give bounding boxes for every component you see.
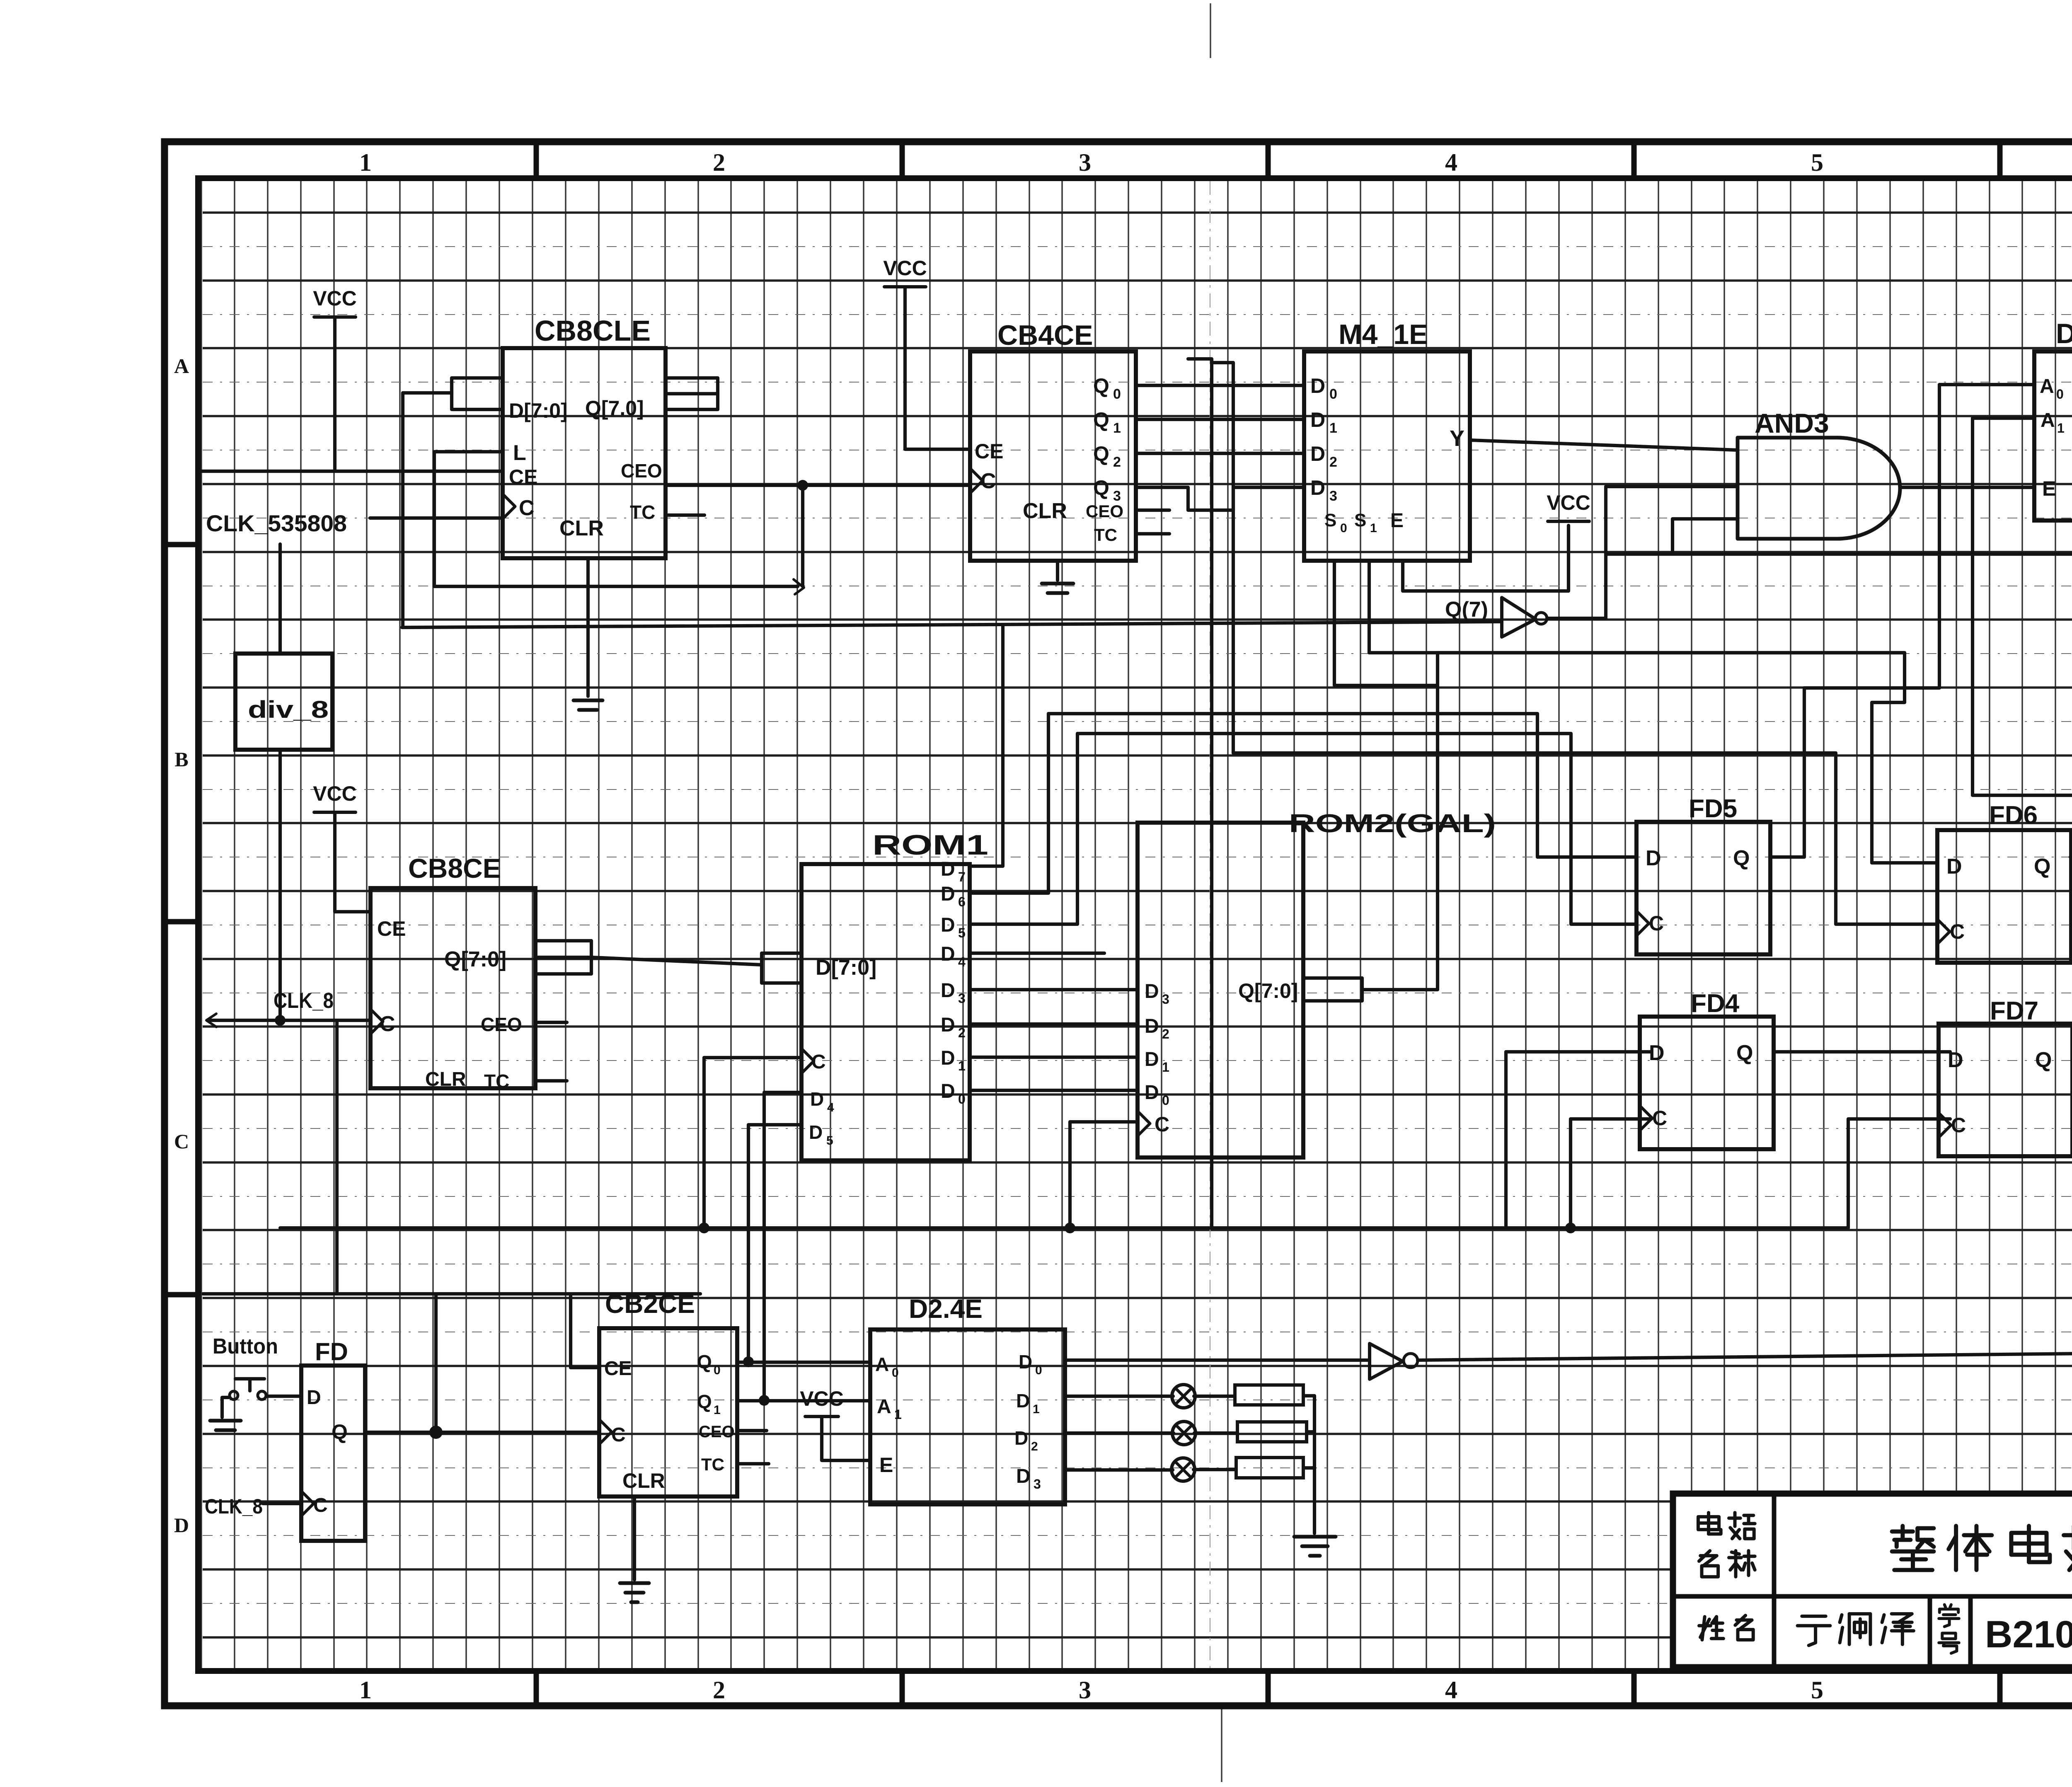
wire rail into FD6 C: [1233, 753, 1937, 924]
svg-text:C: C: [611, 1424, 626, 1446]
resistor R1: [1235, 1385, 1303, 1405]
svg-text:CB8CE: CB8CE: [408, 853, 501, 884]
svg-text:D: D: [809, 1121, 823, 1143]
stub CB2CE CEO: [737, 1429, 767, 1432]
svg-text:FD6: FD6: [1989, 801, 2038, 830]
wire CB2CE Q0 to D2.4E A0: [737, 1361, 870, 1364]
svg-text:CLR: CLR: [1023, 499, 1067, 523]
svg-text:D: D: [1946, 855, 1962, 879]
svg-text:TC: TC: [1094, 525, 1117, 545]
svg-text:CEO: CEO: [621, 460, 662, 482]
wire ROM1 D4 input riser from CB2CE Q1: [764, 1092, 801, 1400]
svg-text:Q: Q: [2035, 1048, 2052, 1072]
gate NOT (output buffer): [1370, 1344, 1403, 1379]
svg-text:C: C: [1950, 920, 1965, 943]
wire ROM1 C from clock rail: [704, 1058, 801, 1228]
svg-text:CE: CE: [604, 1358, 632, 1380]
wire junction down to L loop: [801, 485, 804, 586]
svg-text:CLR: CLR: [559, 516, 604, 540]
svg-text:D: D: [1016, 1390, 1030, 1412]
ground below button: [210, 1421, 241, 1430]
title block label 电路名称: [1707, 1513, 1710, 1534]
divider block div_8: [235, 654, 332, 750]
svg-text:D: D: [941, 1014, 955, 1036]
bus stub out of CB8CLE Q[7.0]: [666, 378, 718, 409]
svg-text:Q(7): Q(7): [1445, 598, 1488, 622]
svg-text:Q: Q: [1093, 442, 1109, 465]
svg-text:4: 4: [958, 954, 966, 969]
svg-text:D: D: [1310, 442, 1325, 465]
wire LED1 to resistor R1: [1194, 1395, 1235, 1398]
bus CB8CE Q[7:0] out: [535, 941, 591, 974]
svg-text:E: E: [879, 1453, 893, 1477]
svg-text:D: D: [941, 858, 955, 880]
svg-text:CE: CE: [975, 440, 1003, 463]
svg-text:4: 4: [827, 1101, 834, 1114]
svg-text:2: 2: [1329, 454, 1337, 470]
wire FD6 Q riser into D2.4E A1: [1973, 418, 2072, 857]
wire R3 to ground bus: [1303, 1466, 1314, 1470]
wire div_8 out (CLK_8): [278, 750, 282, 1020]
svg-text:C: C: [313, 1494, 328, 1516]
svg-text:TC: TC: [630, 501, 655, 523]
svg-text:ROM1: ROM1: [872, 829, 988, 861]
svg-text:D: D: [941, 943, 955, 965]
svg-text:A: A: [877, 1396, 891, 1418]
svg-text:1: 1: [1162, 1060, 1169, 1075]
svg-text:4: 4: [1445, 149, 1457, 176]
wire FD4 Q to FD7 D: [1774, 1050, 1950, 1053]
wire rail into FD5 D: [1048, 714, 1636, 857]
svg-text:C: C: [1951, 1114, 1966, 1137]
svg-text:A: A: [875, 1354, 889, 1375]
wire clock rail into FD7 C: [1848, 1119, 1950, 1228]
svg-text:0: 0: [1329, 386, 1337, 402]
svg-text:Q[7.0]: Q[7.0]: [585, 397, 644, 420]
fold crease line: [1210, 3, 1211, 58]
svg-text:CE: CE: [509, 465, 537, 489]
wire rail into CB2CE CE: [571, 1294, 599, 1368]
stub ROM1 D4: [970, 952, 1104, 955]
bus ROM2 Q out: [1303, 978, 1362, 1001]
wire CB4CE Q2 to M4_1E D2: [1136, 452, 1304, 455]
wire rail into FD6 D: [1438, 653, 1937, 863]
svg-text:1: 1: [958, 1058, 966, 1073]
svg-text:D[7:0]: D[7:0]: [816, 956, 876, 980]
long rail mid page: [280, 1226, 1848, 1230]
ground below CB2CE: [620, 1583, 649, 1602]
wire rail into FD5 C: [1077, 734, 1636, 924]
svg-text:D[7:0]: D[7:0]: [509, 399, 568, 422]
svg-text:3: 3: [1162, 992, 1169, 1007]
svg-text:Q: Q: [697, 1351, 712, 1373]
svg-text:3: 3: [1079, 149, 1091, 176]
wire CLK_535808 down to div_8: [278, 544, 282, 654]
svg-text:A: A: [2041, 409, 2055, 431]
svg-text:D: D: [1310, 476, 1325, 499]
wire ROM1 D6 riser to FD5 rail: [970, 714, 1048, 893]
svg-text:D2.4E: D2.4E: [2056, 318, 2072, 349]
wire into FD4 D: [1506, 1052, 1651, 1228]
svg-text:Button: Button: [213, 1334, 278, 1358]
junction node: [797, 480, 808, 491]
wire R2 to ground bus: [1307, 1430, 1314, 1433]
svg-text:5: 5: [1811, 1676, 1823, 1704]
inner drawing-area border frame: [198, 178, 2072, 1671]
svg-text:Q: Q: [332, 1420, 348, 1443]
svg-text:CLK_8: CLK_8: [274, 989, 334, 1013]
svg-text:CLK_8: CLK_8: [205, 1495, 263, 1518]
svg-text:1: 1: [714, 1403, 721, 1417]
svg-text:FD7: FD7: [1990, 997, 2038, 1025]
wire riser to FD6 clock rail: [1212, 363, 1233, 753]
svg-text:D: D: [1646, 846, 1661, 870]
svg-text:0: 0: [958, 1092, 966, 1107]
wire CB4CE Q0 to M4_1E D0: [1136, 384, 1304, 387]
svg-text:1: 1: [359, 1676, 372, 1704]
svg-text:C: C: [174, 1130, 189, 1153]
svg-text:CLK_535808: CLK_535808: [206, 510, 347, 536]
svg-text:D: D: [1019, 1351, 1032, 1373]
wire VCC to CB4CE CE: [905, 288, 970, 449]
svg-text:Q: Q: [1093, 476, 1109, 499]
wire CB4CE Q3 to M4_1E D3 (with jog): [1136, 487, 1304, 510]
title block frame: [1673, 1494, 2072, 1667]
wire rail step up into AND3 input 3: [1673, 519, 1738, 554]
svg-text:CEO: CEO: [481, 1014, 522, 1035]
svg-text:Q: Q: [1093, 374, 1109, 397]
svg-text:C: C: [1649, 912, 1664, 935]
wire VCC to CB8CLE CE pin: [333, 317, 336, 471]
wire NOT output to right vertical: [1418, 1353, 2072, 1360]
wire VCC to D2.4E E: [822, 1417, 870, 1460]
svg-text:Q: Q: [697, 1391, 712, 1412]
wire D2.4E D2 to LED2: [1065, 1431, 1174, 1435]
svg-text:Q: Q: [2034, 855, 2050, 879]
wire CLK_8 drop to lower rail: [335, 1020, 339, 1294]
svg-text:D: D: [941, 1047, 955, 1069]
stub CB4CE TC: [1136, 532, 1169, 535]
wire CB8CLE L loop: [434, 452, 798, 586]
svg-text:3: 3: [1329, 488, 1337, 504]
wire clock rail into FD4 C: [1571, 1119, 1651, 1228]
stub CB8CE CEO: [535, 1021, 567, 1024]
svg-text:C: C: [1155, 1113, 1169, 1136]
svg-text:5: 5: [1811, 149, 1823, 176]
svg-text:TC: TC: [701, 1455, 724, 1474]
svg-text:3: 3: [1034, 1477, 1041, 1492]
svg-text:4: 4: [1445, 1676, 1457, 1704]
resistor R2: [1237, 1422, 1307, 1442]
svg-text:D: D: [1016, 1465, 1031, 1487]
label 姓名: [1702, 1617, 1704, 1640]
svg-text:VCC: VCC: [1547, 491, 1590, 514]
wire bus feed riser: [401, 393, 404, 627]
svg-text:7: 7: [958, 869, 966, 884]
bus stub into CB8CLE D[7:0]: [452, 378, 503, 409]
svg-text:D: D: [941, 980, 955, 1002]
svg-text:D: D: [1145, 1082, 1159, 1104]
svg-text:0: 0: [714, 1363, 721, 1377]
stub CB4CE CEO: [1136, 508, 1169, 512]
wire FD Q to CB2CE C: [365, 1431, 599, 1434]
svg-text:Q[7:0]: Q[7:0]: [1238, 979, 1298, 1002]
svg-text:6: 6: [958, 894, 966, 909]
svg-text:1: 1: [1113, 420, 1121, 436]
svg-text:CB4CE: CB4CE: [997, 320, 1093, 351]
svg-text:3: 3: [1079, 1676, 1091, 1704]
svg-text:Q: Q: [1093, 408, 1109, 431]
svg-text:1: 1: [1370, 521, 1377, 535]
svg-text:0: 0: [1035, 1363, 1042, 1377]
svg-text:Q[7:0]: Q[7:0]: [444, 947, 506, 971]
svg-text:Q: Q: [1736, 1041, 1753, 1065]
svg-text:2: 2: [1031, 1440, 1038, 1453]
riser ROM1 D7 to Q(7) rail: [970, 625, 1003, 866]
svg-text:1: 1: [1329, 420, 1337, 436]
ground below CB8CLE: [574, 700, 603, 710]
stub CB8CE TC: [535, 1079, 567, 1082]
wire R1 to ground bus: [1303, 1396, 1314, 1533]
svg-text:E: E: [1390, 510, 1404, 532]
svg-text:D: D: [810, 1088, 824, 1110]
svg-text:D: D: [307, 1387, 321, 1409]
svg-text:D: D: [174, 1513, 189, 1537]
svg-text:B: B: [174, 748, 188, 771]
wire LED2 to resistor R2: [1194, 1431, 1237, 1435]
svg-text:div_8: div_8: [248, 696, 329, 723]
svg-text:1: 1: [2057, 421, 2065, 436]
wire D2.4E D0 to NOT gate: [1065, 1358, 1370, 1362]
wire CB2CE CLR to ground: [633, 1496, 636, 1580]
svg-text:FD4: FD4: [1691, 989, 1740, 1018]
svg-text:C: C: [1652, 1107, 1667, 1130]
svg-text:3: 3: [958, 991, 966, 1006]
svg-text:D: D: [1310, 408, 1325, 431]
svg-text:TC: TC: [484, 1070, 509, 1092]
svg-text:CEO: CEO: [699, 1423, 735, 1441]
svg-text:C: C: [519, 496, 535, 520]
svg-text:CB8CLE: CB8CLE: [535, 315, 651, 347]
svg-text:Q: Q: [1733, 846, 1750, 870]
resistor R3: [1236, 1458, 1303, 1478]
svg-text:D: D: [941, 914, 955, 936]
svg-text:D: D: [1145, 1015, 1159, 1037]
junction div_8 output: [275, 1015, 286, 1026]
svg-text:0: 0: [2056, 387, 2064, 402]
svg-text:D: D: [1310, 374, 1325, 397]
bus wire to ROM1 D[7:0]: [591, 957, 762, 965]
label 学号: [1944, 1605, 1946, 1607]
wire CB4CE CLR to ground: [1056, 561, 1059, 580]
wire ROM1 D5 riser to FD5 clock rail: [970, 734, 1077, 924]
wire AND3 output to D2.4E E: [1900, 486, 2034, 489]
wire button to FD D: [266, 1395, 301, 1398]
svg-text:FD5: FD5: [1689, 794, 1737, 823]
long rail to right border (AND3 input 3 net): [1606, 552, 2072, 556]
wire junction riser to clock rail: [434, 1294, 438, 1432]
LED L3: [1172, 1458, 1195, 1481]
svg-text:2: 2: [713, 149, 725, 176]
title text 整体电路图: [1892, 1529, 1913, 1533]
svg-text:VCC: VCC: [883, 257, 927, 280]
wire CB8CLE CEO to CB4CE C: [666, 484, 970, 487]
svg-text:1: 1: [1033, 1402, 1040, 1416]
svg-text:Y: Y: [1450, 426, 1464, 451]
wire CLK_8 into CB8CE C: [207, 1019, 370, 1022]
svg-text:2: 2: [713, 1676, 725, 1704]
svg-text:1: 1: [359, 149, 372, 176]
svg-text:2: 2: [958, 1025, 966, 1040]
wire ROM1 D5 input riser from CB2CE Q0: [748, 1125, 801, 1361]
svg-text:5: 5: [958, 925, 966, 940]
long clock rail (CLK distribution): [337, 1292, 700, 1295]
ground below CB4CE: [1042, 584, 1073, 593]
ground for LED resistors: [1294, 1537, 1336, 1556]
svg-text:2: 2: [1113, 454, 1121, 470]
svg-text:CLR: CLR: [622, 1469, 665, 1492]
svg-text:D: D: [941, 883, 955, 905]
long rail Q(7) feed: [402, 622, 1502, 627]
svg-text:VCC: VCC: [313, 287, 357, 310]
svg-text:S: S: [1354, 510, 1366, 530]
wire ROM2 C from clock rail: [1070, 1122, 1138, 1228]
wire riser from Q jog down to clock rail: [1188, 359, 1212, 1228]
wire M4_1E S0 stub down: [1334, 561, 1438, 685]
junction on FD Q line: [429, 1426, 443, 1439]
svg-text:D: D: [1014, 1427, 1028, 1449]
svg-text:D: D: [1145, 981, 1159, 1002]
stub CB2CE TC: [737, 1462, 769, 1465]
wire CB2CE Q1 to D2.4E A1: [737, 1399, 870, 1402]
svg-text:D2.4E: D2.4E: [909, 1294, 983, 1324]
svg-text:0: 0: [1113, 386, 1121, 402]
wire VCC to CB8CE CE: [335, 812, 370, 912]
svg-text:S: S: [1324, 510, 1336, 530]
wire inverter output up to AND3 input 2: [1547, 487, 1738, 618]
bus stub into ROM1 D[7:0]: [762, 953, 801, 983]
svg-text:A: A: [174, 354, 189, 378]
svg-text:AND3: AND3: [1755, 408, 1829, 438]
wire LED3 to resistor R3: [1193, 1468, 1236, 1471]
name 于润泽: [1802, 1615, 1825, 1618]
svg-text:0: 0: [1162, 1093, 1169, 1108]
wire CLK_535808 to CB8CLE C: [370, 516, 503, 520]
svg-text:FD: FD: [315, 1338, 348, 1366]
svg-text:E: E: [2042, 477, 2056, 500]
svg-text:CB2CE: CB2CE: [605, 1289, 695, 1319]
wire button to ground: [222, 1397, 229, 1417]
wire M4_1E S1 to long rail: [1369, 561, 1905, 653]
svg-text:5: 5: [826, 1134, 833, 1148]
wire D2.4E D3 to LED3: [1065, 1468, 1173, 1472]
wire CB8CLE CLR to ground: [586, 558, 590, 696]
svg-text:0: 0: [892, 1366, 899, 1380]
LED L2: [1172, 1421, 1196, 1445]
svg-text:CEO: CEO: [1086, 501, 1123, 521]
wire M4_1E E to VCC: [1403, 525, 1569, 591]
wire M4_1E Y output to AND3 input 1: [1470, 440, 1738, 450]
wire CLK_8 into FD C: [263, 1502, 301, 1505]
svg-text:VCC: VCC: [313, 782, 357, 805]
wire ROM2 Q to FD6 rail riser: [1362, 653, 1438, 990]
wire ROM1 D2 to ROM2 D2: [970, 1022, 1138, 1026]
wire D2.4E D1 to LED1: [1065, 1395, 1173, 1398]
svg-text:ROM2(GAL): ROM2(GAL): [1289, 809, 1496, 838]
svg-text:1: 1: [894, 1407, 902, 1422]
wire ROM1 D0 to ROM2 D0: [970, 1089, 1138, 1092]
svg-text:VCC: VCC: [800, 1387, 844, 1410]
svg-text:0: 0: [1340, 521, 1347, 535]
wire ROM1 D3 to ROM2 D3: [970, 988, 1138, 991]
svg-text:CE: CE: [377, 917, 406, 940]
svg-text:D: D: [941, 1080, 955, 1102]
svg-text:A: A: [2040, 375, 2054, 397]
LED L1: [1172, 1385, 1195, 1408]
stub CB8CLE TC: [666, 513, 704, 517]
svg-text:D: D: [1145, 1048, 1159, 1070]
svg-text:2: 2: [1162, 1027, 1169, 1041]
svg-text:M4_1E: M4_1E: [1339, 319, 1428, 350]
wire CB4CE Q1 to M4_1E D1: [1136, 418, 1304, 421]
svg-text:B21021306: B21021306: [1985, 1613, 2072, 1656]
wire ROM1 D1 to ROM2 D1: [970, 1056, 1138, 1059]
wire FD5 Q riser into D2.4E A0: [1771, 385, 2034, 857]
svg-text:L: L: [513, 441, 526, 465]
svg-text:CLR: CLR: [425, 1068, 466, 1090]
